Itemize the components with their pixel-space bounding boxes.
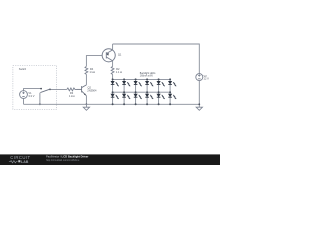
ground right xyxy=(196,107,202,110)
wire Q1 emitter to top rail xyxy=(112,44,114,50)
wire switch pivot down to bottom rail xyxy=(39,93,41,105)
node middle rail col 6 xyxy=(169,91,171,93)
LED D10 xyxy=(157,94,165,99)
node top rail col 3 xyxy=(135,78,137,80)
node top rail col 5 xyxy=(158,78,160,80)
LED D5 xyxy=(134,81,142,86)
svg-text:1.1 Ω: 1.1 Ω xyxy=(116,70,122,74)
LED D2 xyxy=(111,94,119,99)
node bottom rail col 4 xyxy=(146,103,148,105)
node top rail col 2 xyxy=(123,78,125,80)
resistor R4 xyxy=(85,66,88,74)
svg-text:LAB: LAB xyxy=(21,160,29,164)
node bottom rail col 2 xyxy=(123,103,125,105)
CircuitLab logo xyxy=(9,155,31,164)
wire switch to R3 xyxy=(51,88,67,90)
svg-text:http://circuitlab.com/cm263mu: http://circuitlab.com/cm263mu xyxy=(46,159,80,162)
resistor R2 xyxy=(111,66,114,74)
node middle rail col 2 xyxy=(123,91,125,93)
svg-text:1 kΩ: 1 kΩ xyxy=(90,70,95,74)
node middle rail col 1 xyxy=(112,91,114,93)
node bottom rail col 5 xyxy=(158,103,160,105)
LED D3 xyxy=(122,81,130,86)
svg-text:CIRCUIT: CIRCUIT xyxy=(10,155,30,160)
LED D11 xyxy=(168,81,176,86)
node Q2 emitter junction xyxy=(86,103,88,105)
wire LED top rail xyxy=(113,78,171,80)
wire Q2 collector up to R4 xyxy=(85,74,87,85)
wire R2 to LED top rail xyxy=(112,75,114,80)
svg-text:Switch: Switch xyxy=(19,68,27,71)
resistor R3 xyxy=(67,88,77,91)
LED D4 xyxy=(122,94,130,99)
node bottom rail col 1 xyxy=(112,103,114,105)
dashed enclosure box xyxy=(13,66,57,110)
node bottom rail col 3 xyxy=(135,103,137,105)
Q1 emitter arrowhead xyxy=(106,53,109,56)
svg-text:Q1: Q1 xyxy=(118,53,122,57)
wire LED middle rail xyxy=(113,91,171,93)
node top rail col 6 xyxy=(169,78,171,80)
wire LED column 2 xyxy=(123,79,125,104)
LED D1 xyxy=(111,81,119,86)
node V2 bottom-rail junction xyxy=(198,103,200,105)
wire LED column 5 xyxy=(158,79,160,104)
node top rail col 1 xyxy=(112,78,114,80)
switch SW1 xyxy=(40,88,51,93)
wire V1 bottom xyxy=(23,98,25,104)
LED D7 xyxy=(145,81,153,86)
wire Q1 collector to R2 xyxy=(112,61,114,67)
svg-text:3.3 V: 3.3 V xyxy=(28,94,34,98)
svg-text:160mA at 6V: 160mA at 6V xyxy=(140,74,154,77)
svg-text:PaulNestor / LCD Backlight Dri: PaulNestor / LCD Backlight Driver xyxy=(46,155,88,159)
wire V1 top to switch xyxy=(24,89,42,91)
LED D12 xyxy=(168,94,176,99)
LED D9 xyxy=(157,81,165,86)
node middle rail col 4 xyxy=(146,91,148,93)
node bottom rail col 6 xyxy=(169,103,171,105)
voltage source V2 xyxy=(196,74,203,81)
transistor Q1 (PNP) xyxy=(102,49,115,62)
footer black bar xyxy=(0,154,220,165)
wire LED column 4 xyxy=(146,79,148,104)
wire LED column 3 xyxy=(135,79,137,104)
svg-text:2N3904: 2N3904 xyxy=(87,89,97,93)
svg-text:12 V: 12 V xyxy=(204,77,210,81)
node top rail col 4 xyxy=(146,78,148,80)
svg-text:1 kΩ: 1 kΩ xyxy=(69,94,74,98)
LED D6 xyxy=(134,94,142,99)
Q2 emitter arrowhead xyxy=(84,93,86,95)
wire V2 bottom to ground xyxy=(198,81,200,108)
voltage source V1 xyxy=(20,91,28,99)
wire LED column 1 xyxy=(112,79,114,104)
transistor Q2 xyxy=(77,85,87,96)
wire Q2 emitter to bottom rail xyxy=(85,96,87,105)
node middle rail col 5 xyxy=(158,91,160,93)
LED D8 xyxy=(145,94,153,99)
wire bottom rail xyxy=(24,103,200,105)
top rail wire xyxy=(113,44,200,74)
wire LED column 6 xyxy=(169,79,171,104)
node switch-bottom junction xyxy=(39,103,41,105)
node middle rail col 3 xyxy=(135,91,137,93)
wire R4 top to Q1 base xyxy=(86,56,102,67)
ground under Q2 xyxy=(83,104,89,110)
